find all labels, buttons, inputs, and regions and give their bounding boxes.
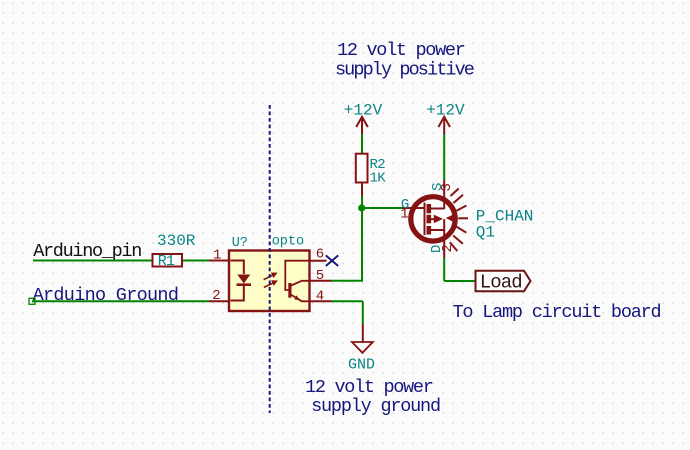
svg-text:2: 2 <box>440 244 456 252</box>
svg-text:Q1: Q1 <box>476 223 495 241</box>
svg-text:supply ground: supply ground <box>311 396 440 417</box>
svg-text:+12V: +12V <box>426 102 465 120</box>
svg-text:12 volt power: 12 volt power <box>305 377 433 398</box>
svg-text:5: 5 <box>316 268 324 284</box>
svg-text:To Lamp circuit board: To Lamp circuit board <box>453 302 661 323</box>
svg-text:1K: 1K <box>370 170 387 186</box>
svg-text:3: 3 <box>439 183 455 191</box>
svg-text:Arduino Ground: Arduino Ground <box>33 285 179 306</box>
svg-text:6: 6 <box>316 247 324 263</box>
svg-text:+12V: +12V <box>344 102 383 120</box>
svg-text:opto: opto <box>272 234 304 249</box>
svg-text:1: 1 <box>400 207 408 223</box>
svg-text:4: 4 <box>316 288 324 304</box>
svg-text:Arduino_pin: Arduino_pin <box>33 241 141 262</box>
svg-text:1: 1 <box>213 248 221 264</box>
svg-text:Load: Load <box>480 272 522 294</box>
svg-text:supply positive: supply positive <box>335 60 474 81</box>
svg-text:2: 2 <box>212 288 220 304</box>
svg-text:12 volt power: 12 volt power <box>337 40 465 61</box>
svg-text:330R: 330R <box>157 232 196 250</box>
svg-text:U?: U? <box>232 236 248 251</box>
svg-text:GND: GND <box>348 356 375 373</box>
svg-text:R1: R1 <box>158 253 175 270</box>
